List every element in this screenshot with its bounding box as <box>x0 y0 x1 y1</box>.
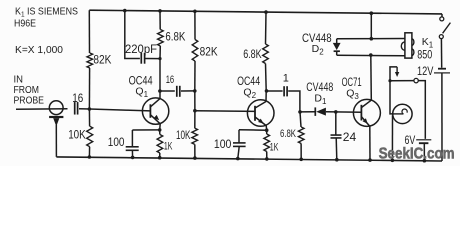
junction dot rail 220pF branch <box>123 9 127 13</box>
switch S1 pole bottom <box>439 35 443 39</box>
capacitor C 100uF stage1 <box>126 147 139 151</box>
svg-text:SeekIC.com: SeekIC.com <box>379 146 455 163</box>
transistor Q1 emitter stroke <box>151 115 161 124</box>
resistor R 6.8K stage2 <box>263 44 269 64</box>
svg-text:1K: 1K <box>164 141 173 153</box>
junction dot rail 6.8K stage2 <box>264 10 268 14</box>
label value 16 input cap <box>72 93 83 105</box>
wire 6.8K R top lead <box>159 11 161 30</box>
wire D2 bottom stub <box>336 52 338 55</box>
resistor R 1K stage1 <box>157 135 163 154</box>
junction dot ground 24uF <box>335 158 339 162</box>
transistor Q2 collector stroke <box>255 102 266 109</box>
label FROM <box>14 85 40 96</box>
node B Q2 base junction <box>193 109 197 113</box>
wire 1K R2 top lead <box>266 130 268 134</box>
label 12V battery <box>417 66 434 78</box>
wire coil bottom horizontal <box>337 54 405 57</box>
wire coil top horizontal <box>337 38 405 40</box>
label OC71 Q3 <box>342 77 362 101</box>
wire 82K R1 bottom lead <box>88 68 90 109</box>
wire 220pF right lead <box>145 58 160 60</box>
transistor Q2 emitter stroke <box>255 117 266 126</box>
capacitor C 16uF input <box>75 102 78 115</box>
transistor Q3 emitter stroke <box>362 117 370 127</box>
wire bypass cap C100-2 stem <box>238 130 240 143</box>
capacitor C 220pF <box>141 53 144 64</box>
wire bottom ground rail <box>56 157 442 161</box>
resistor R 10K stage1 <box>87 126 93 147</box>
junction dot ground 6.8K stage3 <box>299 158 303 162</box>
junction dot ground C100 stage1 <box>131 156 135 160</box>
junction dot ground 10K stage2 <box>193 156 197 160</box>
wire switch to 12V battery <box>440 39 442 68</box>
label CV448 D1 <box>306 82 333 106</box>
svg-text:82K: 82K <box>93 52 111 66</box>
wire node A to node B <box>194 91 196 111</box>
watermark SeekIC.com <box>379 146 455 163</box>
svg-text:24: 24 <box>343 132 357 144</box>
svg-text:K=X 1,000: K=X 1,000 <box>15 44 63 56</box>
junction dot Q2 emitter node <box>265 128 269 132</box>
relay coil K1 right loop 1 <box>412 39 414 46</box>
transistor Q3 base bar <box>360 105 362 121</box>
resistor R 82K stage2 <box>192 40 198 62</box>
transistor Q2 OC44 body <box>247 100 274 127</box>
node D1 input junction <box>298 110 302 114</box>
wire coupling tap to 1uF cap <box>267 90 283 92</box>
transistor Q2 base bar <box>254 106 256 121</box>
relay coil K1 left loop <box>401 42 405 50</box>
label value 220pF <box>125 44 157 56</box>
wire 1K R2 bottom lead <box>266 152 268 159</box>
wire 24uF stem <box>335 112 337 135</box>
junction dot ground 82K/10K column <box>88 155 92 159</box>
resistor R 1K stage2 <box>264 134 270 152</box>
wire node to Q1 base <box>89 109 150 111</box>
diode D2 CV448 cathode bar <box>334 50 340 52</box>
wire 82K R1 top lead <box>88 10 90 53</box>
label OC44 Q2 <box>237 76 260 100</box>
junction dot rail 82K stage2 <box>193 10 197 14</box>
wire Q3 emitter to ground <box>369 126 371 160</box>
diode D1 CV448 cathode bar <box>314 107 316 116</box>
junction dot ground 1K stage1 <box>158 156 162 160</box>
label value 6.8K stage1 <box>165 31 185 43</box>
wire probe input lead <box>16 108 68 110</box>
transistor Q2 emitter arrow <box>258 119 264 124</box>
label note K1 relay type <box>15 6 78 18</box>
svg-text:6.8K: 6.8K <box>165 31 185 43</box>
battery B2 6V <box>416 140 431 143</box>
wire jack sleeve to ground <box>391 115 393 160</box>
wire C100-2 to ground <box>238 146 239 158</box>
wire D2 top stub <box>336 39 338 43</box>
capacitor C 24uF <box>331 135 342 138</box>
capacitor C 16uF interstage <box>177 86 180 97</box>
label value 100 stage1 <box>108 137 125 149</box>
node input bias junction <box>88 107 92 111</box>
junction dot ground C100 stage2 <box>236 157 240 161</box>
wire 6V battery to ground rail <box>423 144 425 161</box>
junction dot Q2 collector coupling tap <box>265 89 269 93</box>
wire collector node down to Q1 <box>159 59 161 99</box>
junction dot coil bottom wire <box>369 53 373 57</box>
output jack J1 tip line <box>393 113 403 115</box>
svg-text:IN: IN <box>14 74 24 85</box>
svg-text:12V: 12V <box>417 66 434 78</box>
resistor R 82K stage1 <box>87 53 93 68</box>
svg-text:850: 850 <box>417 49 432 61</box>
wire 24uF to ground <box>335 138 338 160</box>
node A coupling junction <box>193 89 197 93</box>
label value 82K stage1 <box>93 52 111 66</box>
wire 12V battery to ground rail <box>441 73 443 161</box>
transistor Q3 collector stroke <box>362 100 372 107</box>
svg-text:16: 16 <box>166 74 175 86</box>
wire 6.8K R3 bottom lead <box>300 144 302 160</box>
wire 220pF left leg <box>125 11 140 59</box>
junction dot ground 6V <box>423 159 427 163</box>
wire C100 to ground <box>131 150 133 157</box>
wire 6.8K R2 bottom lead <box>265 64 268 91</box>
label value 1 coupling cap <box>283 73 289 85</box>
wire Q2 emitter down <box>265 126 268 131</box>
transistor Q1 collector stroke <box>151 99 161 107</box>
wire fixed contact to battery column <box>418 81 425 139</box>
junction dot coil top wire <box>370 37 374 41</box>
wire Q3 collector up <box>370 55 373 100</box>
wire Q1 emitter down <box>159 124 162 130</box>
junction dot ground jack <box>391 159 395 163</box>
wire 1K R top lead <box>159 130 161 135</box>
transistor Q1 OC44 body <box>142 98 168 124</box>
resistor R 6.8K stage1 <box>158 30 164 47</box>
svg-text:1: 1 <box>283 73 289 85</box>
output jack J1 tip loop <box>402 109 407 114</box>
junction dot Q1 emitter node <box>158 128 162 132</box>
wire node to diode D1 <box>300 111 315 113</box>
diode D2 CV448 triangle <box>333 43 341 50</box>
label CV448 D2 <box>302 33 332 57</box>
wire input cap to node <box>79 108 90 110</box>
label OC44 Q1 <box>129 75 153 99</box>
label 850 relay <box>417 49 432 61</box>
wire probe ground stem <box>55 124 57 157</box>
wire emitter node to bypass cap <box>132 129 159 131</box>
relay coil K1 right loop 2 <box>412 49 414 56</box>
label IN <box>14 74 24 85</box>
label PROBE <box>14 95 45 106</box>
junction dot ground 1K stage2 <box>265 157 269 161</box>
label value 100 stage2 <box>214 139 232 151</box>
relay contact arm <box>390 67 397 114</box>
wire 10K R2 bottom lead <box>194 144 196 158</box>
junction dot ground Q3 emitter <box>368 158 372 162</box>
wire 10K R1 top lead <box>88 109 90 126</box>
label K1 relay <box>422 36 434 49</box>
wire 1K R bottom lead <box>159 153 161 158</box>
label value 6.8K stage3 <box>280 128 296 140</box>
relay contact actuation arrow <box>395 67 399 77</box>
relay fixed contact circle <box>414 78 418 82</box>
svg-text:H96E: H96E <box>14 18 36 30</box>
wire Q2 base lead <box>195 110 255 113</box>
wire arm to fixed contact <box>390 80 414 82</box>
svg-text:220pF: 220pF <box>125 44 157 56</box>
wire Q2 collector down <box>265 91 267 102</box>
junction dot 24uF tap <box>334 110 338 114</box>
svg-text:PROBE: PROBE <box>14 95 45 106</box>
svg-text:K1 IS SIEMENS: K1 IS SIEMENS <box>15 6 78 18</box>
label value 24 <box>343 132 357 144</box>
junction dot Q1 collector coupling tap <box>158 89 162 93</box>
label value 10K stage1 <box>68 128 86 142</box>
label note K scale <box>15 44 63 56</box>
label value 82K stage2 <box>200 45 218 59</box>
transistor Q1 base bar <box>149 104 151 118</box>
svg-text:10K: 10K <box>68 128 86 142</box>
switch S1 blade <box>443 23 451 34</box>
wire emitter node to bypass cap 2 <box>239 129 267 131</box>
wire 1uF cap to corner <box>288 91 300 112</box>
junction dot rail relay branch <box>370 11 374 15</box>
wire 6.8K R2 top lead <box>265 12 268 44</box>
relay coil K1 core <box>405 33 412 58</box>
transistor Q1 emitter arrow <box>154 115 160 120</box>
junction dot rail 6.8K stage1 <box>158 9 162 13</box>
svg-text:6.8K: 6.8K <box>280 128 296 140</box>
svg-text:FROM: FROM <box>14 85 40 96</box>
wire coupling tap to cap <box>160 90 175 92</box>
label value 6.8K stage2 <box>243 49 262 61</box>
label value 1K stage1 <box>164 141 173 153</box>
label value 16 interstage <box>166 74 175 86</box>
wire D1 to Q3 base <box>326 111 362 114</box>
svg-text:100: 100 <box>214 139 232 151</box>
resistor R 6.8K stage3 <box>298 127 304 144</box>
wire 6.8K R3 top lead <box>300 112 301 127</box>
resistor R 10K stage2 <box>192 128 198 144</box>
switch S1 pole top <box>440 14 444 21</box>
wire 10K R2 top lead <box>194 111 196 128</box>
wire 82K R2 top lead <box>194 11 196 39</box>
capacitor C 1uF coupling <box>284 86 287 96</box>
node IN probe jack <box>49 101 63 124</box>
wire interstage cap to node A <box>181 90 195 92</box>
svg-text:6.8K: 6.8K <box>243 49 262 61</box>
junction dot contact arm tap <box>388 79 391 82</box>
svg-text:16: 16 <box>72 93 83 105</box>
label 6V battery <box>405 135 416 147</box>
wire top supply rail <box>89 10 442 14</box>
junction dot 220pF collector node <box>158 57 161 60</box>
wire rail to coil top <box>370 13 372 39</box>
label value 10K stage2 <box>176 130 191 142</box>
capacitor C 100uF stage2 <box>233 143 246 147</box>
svg-text:1K: 1K <box>270 142 279 154</box>
battery B1 12V <box>434 69 450 73</box>
wire 10K R1 bottom lead <box>88 147 90 157</box>
svg-text:100: 100 <box>108 137 125 149</box>
wire bypass cap C100 stem <box>131 130 133 147</box>
output jack J1 body <box>393 104 412 123</box>
wire 82K R2 bottom lead <box>194 61 196 91</box>
label note H96E <box>14 18 36 30</box>
wire 6.8K R bottom lead <box>159 46 161 59</box>
transistor Q3 OC71 body <box>353 99 380 126</box>
diode D1 CV448 triangle <box>316 108 326 116</box>
transistor Q3 emitter arrow <box>363 118 368 124</box>
label value 1K stage2 <box>270 142 279 154</box>
svg-text:82K: 82K <box>200 45 218 59</box>
svg-text:10K: 10K <box>176 130 191 142</box>
